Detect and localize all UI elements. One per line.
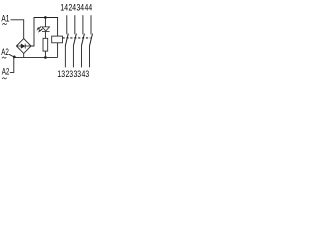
node LED tap dot <box>44 16 47 19</box>
wire A2 to junction <box>9 54 13 56</box>
contact 13-14 <box>65 15 68 67</box>
svg-text:24: 24 <box>68 3 76 13</box>
mechanical link dashed line <box>63 37 91 39</box>
node resistor-rail junction dot <box>44 56 47 59</box>
bridge bottom stub <box>23 53 25 57</box>
wire resistor to bottom rail <box>44 51 46 57</box>
svg-text:44: 44 <box>85 3 93 13</box>
relay coil K1 <box>52 36 63 43</box>
AC tilde under A1 <box>2 23 6 24</box>
wire rail to LED anode <box>44 18 46 27</box>
contact 23-24 <box>73 15 76 67</box>
diode anode wire inside bridge <box>16 45 21 47</box>
contact 33-34 <box>81 15 84 67</box>
LED cathode bar <box>42 31 50 33</box>
wire second A2 up to junction <box>10 57 14 73</box>
diode cathode wire inside bridge <box>25 45 31 47</box>
svg-text:23: 23 <box>65 69 73 79</box>
svg-text:A1: A1 <box>1 13 9 23</box>
LED emission arrow 1 <box>37 27 42 31</box>
contact top labels 14 24 34 44 <box>60 3 92 13</box>
contact 43-44 <box>90 15 93 67</box>
svg-text:13: 13 <box>57 69 65 79</box>
resistor R1 <box>43 38 48 51</box>
wire bridge output to top rail <box>31 18 58 47</box>
AC tilde under second A2 <box>2 78 6 79</box>
svg-text:A2: A2 <box>1 47 9 57</box>
bridge rectifier diamond <box>16 39 31 54</box>
svg-text:33: 33 <box>74 69 82 79</box>
diode D1 cathode bar <box>24 44 26 49</box>
wire LED cathode to resistor <box>44 32 46 39</box>
AC tilde under first A2 <box>2 57 6 58</box>
diode D1 triangle <box>21 44 25 48</box>
contact bottom labels 13 23 33 43 <box>57 69 89 79</box>
LED V1 triangle <box>42 27 50 31</box>
LED emission arrow 2 <box>38 29 43 33</box>
wire coil to bottom rail <box>57 43 59 58</box>
svg-text:A2: A2 <box>2 66 10 76</box>
svg-text:43: 43 <box>82 69 90 79</box>
node A2 junction dot <box>13 56 16 59</box>
svg-text:14: 14 <box>60 3 68 13</box>
bottom rail wire <box>14 56 57 58</box>
svg-text:34: 34 <box>77 3 85 13</box>
wire A1 to bridge top <box>11 20 24 39</box>
